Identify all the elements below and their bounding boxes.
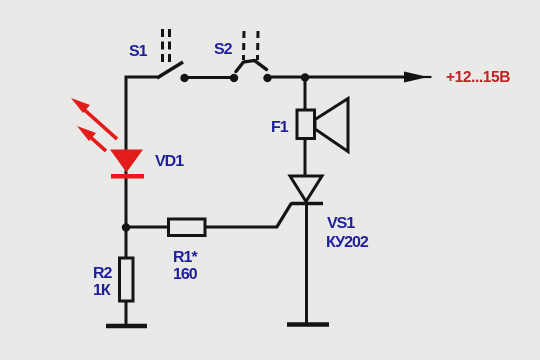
wire: top rail left segment to switch S1	[125, 76, 159, 79]
wire: F1 branch from top rail junction	[304, 77, 307, 110]
wire: gate diagonal to thyristor VS1	[277, 203, 292, 228]
svg-text:R1*: R1*	[173, 249, 198, 266]
wire: node A to R1 left lead	[126, 226, 169, 229]
svg-text:R2: R2	[93, 265, 113, 282]
svg-text:+12...15В: +12...15В	[446, 69, 510, 86]
switch S1 actuator dashed link	[163, 29, 170, 64]
supply arrow tip whisker	[420, 76, 432, 78]
wire: between S1 and S2	[184, 76, 234, 79]
switch S1 lever	[157, 62, 183, 78]
svg-text:S1: S1	[129, 43, 148, 60]
resistor R1 body	[169, 219, 206, 236]
switch S1 contact dot	[180, 74, 188, 82]
svg-text:1К: 1К	[93, 282, 111, 299]
thyristor VS1 anode triangle	[290, 176, 322, 202]
LED VD1 emission arrow (upper)	[71, 98, 117, 139]
LED VD1 anode triangle	[110, 150, 143, 173]
junction node: top rail to F1 branch	[301, 73, 309, 81]
svg-text:VS1: VS1	[327, 215, 355, 232]
switch S2 left contact dot	[230, 74, 238, 82]
wire: VS1 cathode down to ground	[305, 203, 308, 325]
resistor R2 body	[120, 258, 134, 301]
svg-text:S2: S2	[214, 41, 233, 58]
ground (right)	[287, 322, 329, 327]
wire: left vertical rail from top rail down to node A	[125, 77, 128, 227]
svg-text:КУ202: КУ202	[326, 234, 369, 251]
switch S2 bridging contact arc	[236, 61, 267, 72]
LED VD1 cathode bar	[111, 174, 144, 179]
wire: R1 right lead to gate bend	[205, 226, 278, 229]
buzzer F1 horn	[315, 99, 348, 152]
buzzer F1 body	[297, 110, 315, 139]
wire: F1 to thyristor VS1 anode	[304, 138, 307, 177]
svg-text:VD1: VD1	[155, 153, 184, 170]
LED VD1 emission arrow (lower)	[77, 126, 106, 151]
wire: node A down to R2	[125, 227, 128, 259]
switch S2 actuator dashed link	[244, 31, 259, 60]
junction node A (LED cathode / R1 / R2)	[122, 223, 130, 231]
wire: R2 bottom lead to ground	[125, 301, 128, 326]
ground (left)	[106, 324, 147, 329]
switch S2 right contact dot	[263, 74, 271, 82]
svg-text:160: 160	[173, 266, 198, 283]
svg-text:F1: F1	[271, 119, 289, 136]
wire: top rail right segment to supply arrow	[267, 76, 408, 79]
thyristor VS1 cathode bar	[291, 202, 323, 206]
supply arrow head	[404, 72, 428, 83]
